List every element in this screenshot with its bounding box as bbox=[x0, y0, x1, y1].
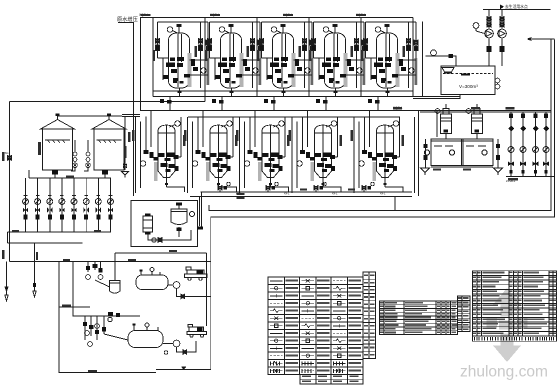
watermark logo bbox=[487, 288, 528, 362]
drain leg DL1 bbox=[6, 262, 8, 296]
wire left feed riser bbox=[9, 102, 11, 262]
label tank T2 side bbox=[128, 132, 131, 142]
wire clean area boundary bbox=[422, 22, 424, 97]
drum D2 bbox=[128, 331, 163, 348]
wire row2 header bbox=[140, 110, 551, 112]
wire drum1 feed line bbox=[115, 252, 207, 254]
valve column VC6 bbox=[83, 178, 89, 232]
softener unit S5 bbox=[350, 111, 404, 194]
label blobs on headers bbox=[2, 14, 518, 261]
wire raw water feed drop bbox=[133, 22, 135, 196]
filter unit F4 bbox=[308, 18, 366, 111]
clean water tank bbox=[441, 66, 500, 95]
wire skid riser bbox=[206, 253, 208, 326]
clean pump CP2 bbox=[498, 10, 507, 67]
pump leg PL3 bbox=[533, 112, 539, 177]
wire valve bank manifold left cap bbox=[7, 232, 9, 243]
dosing filter column bbox=[143, 216, 153, 232]
wire row1 bottom manifold B bbox=[153, 96, 413, 98]
drum1 inlet cluster bbox=[86, 262, 110, 288]
clean pump CP1 bbox=[485, 10, 494, 67]
wire row1 boundary drop bbox=[204, 97, 206, 102]
dosing tank bbox=[171, 209, 187, 225]
wire tank bottom pipe b bbox=[413, 95, 460, 99]
pump leg PL4 bbox=[543, 112, 549, 177]
wire row2 right pipes bbox=[415, 111, 438, 197]
wire gauge line bbox=[426, 56, 457, 66]
wire manifold drop a bbox=[199, 196, 201, 226]
drain valve cluster D4 bbox=[362, 182, 386, 195]
wire row1 left boundary bbox=[140, 18, 142, 111]
wire backwash line bbox=[10, 101, 206, 103]
wire pump manifold bottom bbox=[506, 176, 555, 178]
wire drum2 drain tick bbox=[182, 367, 185, 370]
pump leg PL2 bbox=[520, 112, 526, 177]
drum2 inlet cluster bbox=[83, 312, 128, 346]
drain leg DL2 bbox=[34, 243, 36, 291]
tank T1 bbox=[41, 114, 75, 179]
wire tank vent pipe bbox=[58, 115, 122, 117]
dosing unit box bbox=[131, 201, 198, 247]
filter unit F1 bbox=[152, 18, 210, 111]
wire row2 sub header bbox=[188, 116, 400, 118]
dosing gauge bbox=[152, 238, 156, 242]
valve column VC7 bbox=[95, 178, 101, 232]
label tank T1 side bbox=[38, 142, 41, 155]
level gauge LG bbox=[431, 50, 437, 56]
wire row1 bottom manifold A bbox=[153, 90, 413, 92]
pump stack PA bbox=[71, 140, 77, 171]
wire manifold left riser bbox=[28, 170, 30, 178]
skid unit K1 bbox=[185, 267, 208, 280]
wire manifold drop b bbox=[201, 192, 203, 229]
svg-text:去生活用水点: 去生活用水点 bbox=[505, 4, 528, 9]
svg-text:zhulong.com: zhulong.com bbox=[460, 364, 548, 381]
wire recycle line bbox=[10, 261, 211, 263]
svg-text:V=300m³: V=300m³ bbox=[459, 84, 478, 89]
pump drum2 bbox=[173, 340, 180, 347]
wire valve bank manifold upper bbox=[8, 231, 112, 233]
valve column VC5 bbox=[71, 178, 77, 232]
degasifier G2 bbox=[466, 104, 482, 139]
label discharge flag bbox=[500, 5, 504, 10]
tank right drain column bbox=[494, 139, 503, 175]
drum D1 aux vessel bbox=[110, 281, 121, 294]
filter unit F2 bbox=[204, 18, 262, 111]
dosing pump bbox=[190, 212, 195, 217]
wire tank outlet manifold bbox=[29, 177, 111, 179]
wire manifold riser bbox=[394, 196, 396, 210]
filter unit F5 bbox=[360, 18, 418, 111]
wire discharge arrow bbox=[528, 38, 555, 41]
wire row2 drain manifold B bbox=[190, 195, 412, 197]
dosing piping bbox=[148, 230, 191, 240]
valve feed V0 bbox=[8, 156, 12, 161]
wire interdrum pipe bbox=[73, 262, 140, 317]
wire tank feed branch b bbox=[122, 116, 140, 118]
wire valve bank manifold lower bbox=[8, 242, 83, 244]
wire row1 right boundary bbox=[412, 18, 414, 97]
svg-text:原水增压: 原水增压 bbox=[117, 15, 138, 23]
valve column VC1 bbox=[23, 178, 29, 232]
valve column VC8 bbox=[108, 178, 114, 232]
softener unit S3 bbox=[236, 111, 290, 194]
filter unit F3 bbox=[256, 18, 314, 111]
wire tank bottom pipe a bbox=[413, 96, 460, 98]
skid unit K2 bbox=[187, 325, 207, 338]
wire row2 header lower bbox=[420, 111, 551, 113]
wire clean pump discharge header bbox=[483, 9, 551, 11]
pump stack PB bbox=[84, 140, 90, 171]
intermediate water tank bbox=[424, 139, 493, 167]
pressure gauge PG bbox=[473, 23, 479, 29]
tank left drain column bbox=[421, 139, 430, 175]
valve column VC3 bbox=[47, 178, 53, 232]
dosing valve bbox=[158, 238, 162, 243]
narrow list strip bbox=[363, 272, 376, 359]
wire raw water header bbox=[140, 17, 413, 19]
tank T2 bbox=[92, 114, 126, 179]
equipment table middle bbox=[380, 301, 458, 335]
pump drum1 bbox=[173, 282, 180, 289]
wire raw water label stem bbox=[118, 22, 134, 24]
softener unit S4 bbox=[288, 111, 342, 194]
drain valve cluster D1 bbox=[218, 182, 242, 195]
pump leg PL1 bbox=[508, 112, 514, 177]
wire drum enclosure left bbox=[59, 262, 156, 373]
equipment table right bbox=[473, 271, 557, 342]
valve column VC4 bbox=[59, 178, 65, 232]
softener unit S2 bbox=[184, 111, 238, 194]
drain valve cluster D2 bbox=[266, 182, 290, 195]
wire long transfer pipe lower bbox=[156, 40, 555, 370]
wire drum1 feed drop bbox=[114, 253, 116, 280]
drum D1 bbox=[136, 275, 168, 290]
drain valve cluster D3 bbox=[314, 182, 338, 195]
wire long transfer pipe upper bbox=[209, 39, 551, 211]
valve column VC2 bbox=[35, 178, 41, 232]
drain funnel tick bbox=[198, 227, 203, 230]
wire blowdown branch bbox=[59, 306, 90, 308]
wire row2 drain manifold A bbox=[201, 191, 413, 193]
degasifier G1 bbox=[435, 104, 451, 139]
small list right of table2 bbox=[458, 296, 471, 332]
wire tank feed branch a bbox=[122, 114, 140, 116]
legend table bbox=[268, 277, 363, 384]
softener unit S1 bbox=[132, 111, 186, 194]
